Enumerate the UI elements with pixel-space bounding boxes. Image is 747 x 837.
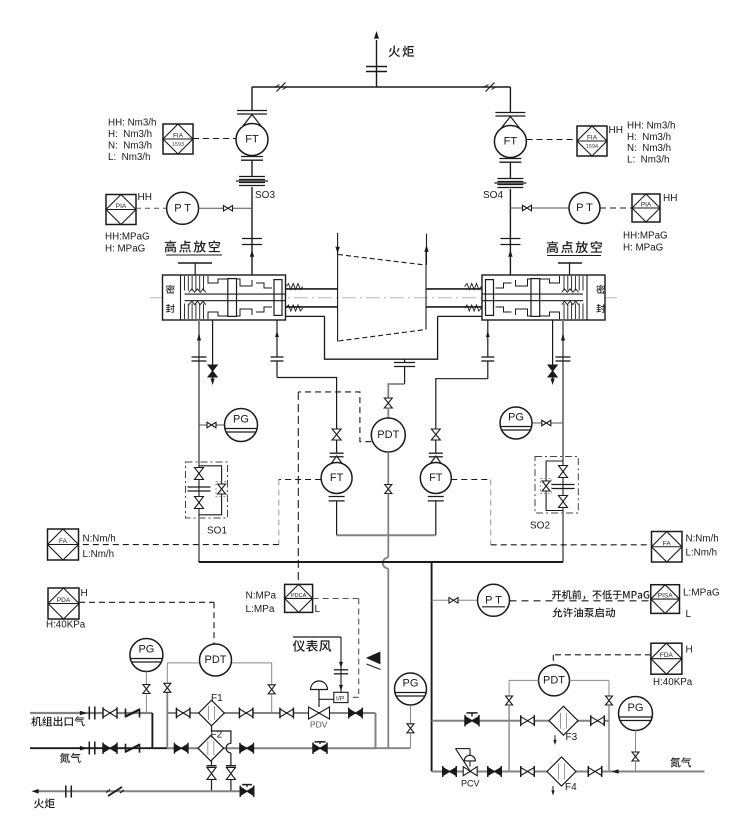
valve PCV east	[488, 768, 502, 776]
flange pair right riser	[500, 238, 520, 240]
compressor left wall	[337, 253, 339, 342]
SO1 dashed box	[186, 462, 228, 518]
flange left FT leg	[330, 452, 344, 454]
signal PDA to PDT	[79, 601, 214, 603]
signal PDT loop	[298, 392, 371, 442]
pressure gauge PG right	[500, 407, 532, 439]
signal FIA-FT dashed	[193, 138, 236, 140]
wire flare stub	[376, 40, 378, 87]
svg-text:L:Nm/h: L:Nm/h	[686, 548, 718, 559]
left seal housing label	[166, 285, 175, 294]
wire PG mid tap	[410, 705, 412, 724]
shaft line right	[426, 288, 482, 290]
flow cone left lower FT	[329, 456, 345, 467]
compressor right wall	[425, 251, 427, 330]
capped valve flare end	[240, 787, 254, 796]
instrument PDA left	[48, 588, 79, 619]
hop drain over row2	[226, 743, 231, 753]
wire center drop lower	[387, 569, 389, 749]
wire PCV row	[432, 771, 705, 773]
svg-text:N:Nm/h: N:Nm/h	[83, 534, 116, 545]
instrument FA right	[652, 532, 683, 563]
control valve PCV	[463, 767, 477, 776]
wire center PDT upper	[387, 408, 389, 419]
pressure gauge PG lower-left	[130, 639, 163, 672]
svg-text:PG: PG	[233, 414, 249, 426]
svg-text:FT: FT	[245, 134, 259, 146]
wire F1 drain jog	[212, 726, 231, 744]
pressure gauge PG left	[225, 409, 258, 442]
signal PT dashed	[510, 600, 651, 602]
air flange	[334, 669, 348, 671]
wire left leak leg	[276, 320, 278, 357]
exhaust outlet wire	[404, 359, 406, 362]
wire PG lower-left tap	[145, 672, 147, 686]
differential transmitter PDT center	[371, 418, 405, 452]
valve right vent stub	[552, 320, 554, 365]
svg-text:N: Nm3/h: N: Nm3/h	[108, 141, 152, 152]
wire right vent riser	[509, 87, 511, 112]
exhaust duct	[325, 316, 438, 359]
flange below right lower FT	[428, 496, 444, 498]
valve SO2 upper	[559, 466, 568, 478]
wire PDT tap east lower	[271, 694, 273, 713]
svg-text:F3: F3	[566, 732, 578, 743]
wire right leak leg	[487, 320, 489, 357]
shaft line left	[286, 288, 338, 290]
svg-text:N: Nm3/h: N: Nm3/h	[627, 143, 671, 154]
valve center lower	[385, 485, 392, 494]
valve F2 inlet	[174, 744, 188, 752]
valve PDV inlet	[280, 709, 294, 717]
vent underline left	[166, 254, 222, 256]
wire left seal supply upper	[198, 320, 200, 462]
wire flare row	[38, 790, 240, 792]
signal PDCA riser	[297, 392, 299, 585]
wire right seal supply upper	[562, 320, 564, 457]
label 火炬 bottom	[34, 798, 44, 808]
svg-text:P T: P T	[576, 202, 593, 214]
valve SO1 bypass	[218, 484, 226, 494]
svg-text:FDA: FDA	[660, 652, 674, 659]
SO1 orifice plates	[188, 486, 211, 488]
valve row2 inlet	[103, 744, 117, 753]
drain arrow F3	[554, 735, 556, 741]
valve PG mid	[407, 724, 414, 733]
vent 高点放空 right label	[547, 241, 558, 253]
valve F4 outlet	[588, 768, 602, 776]
flange right FT leg	[429, 452, 443, 454]
filter F4	[547, 757, 576, 786]
drain valve west	[211, 761, 213, 766]
wire row1 inlet	[30, 712, 152, 714]
instrument PIA left	[106, 195, 136, 225]
filter F1	[199, 700, 225, 726]
filter F3	[549, 706, 578, 735]
svg-text:PG: PG	[628, 702, 644, 714]
drain valve east	[226, 765, 236, 767]
label 氮气 row2	[60, 753, 70, 763]
arrow up into flare line right	[508, 250, 512, 257]
valve PG lower-right	[632, 752, 639, 761]
svg-text:HH: HH	[663, 193, 677, 204]
flow stub right	[426, 234, 428, 265]
shaft spring right-bottom	[465, 305, 482, 311]
wire riser west right	[508, 705, 510, 772]
svg-text:PIA: PIA	[641, 202, 652, 209]
flange row2 inlet	[88, 742, 90, 755]
valve F1 outlet	[239, 709, 253, 717]
svg-text:N:MPa: N:MPa	[246, 590, 277, 601]
valve PDT tap east right	[606, 696, 613, 705]
wire PDV outlet link	[376, 747, 411, 749]
valve PT tap left	[224, 206, 233, 212]
svg-text:H: Nm3/h: H: Nm3/h	[108, 129, 152, 140]
wire PG mid drop	[410, 733, 412, 748]
arrow up left leak	[275, 331, 279, 337]
orifice stack SO4	[497, 178, 523, 180]
svg-text:PG: PG	[508, 412, 524, 424]
instrument FA left	[48, 529, 79, 560]
valve F2 outlet	[240, 744, 254, 752]
svg-text:I/P: I/P	[336, 695, 345, 702]
capped valve row2	[313, 744, 327, 753]
wire PG lower-left drop	[145, 694, 147, 714]
signal FT-FIA dashed right	[527, 139, 578, 141]
svg-text:PDCA: PDCA	[291, 593, 307, 599]
PDV actuator dome	[311, 681, 328, 690]
svg-text:HH: Nm3/h: HH: Nm3/h	[108, 118, 156, 129]
wire FT collector	[337, 534, 436, 536]
svg-text:HH: Nm3/h: HH: Nm3/h	[627, 121, 675, 132]
check valve row1	[125, 709, 127, 718]
flange above right FT	[495, 112, 525, 114]
svg-text:L:Nm/h: L:Nm/h	[83, 549, 115, 560]
filter F2	[198, 735, 224, 761]
valve SO1 lower	[195, 497, 204, 509]
flange flare row	[65, 786, 67, 798]
wire PDT tap west upper	[166, 663, 168, 683]
exhaust jog wire	[388, 384, 404, 399]
signal PT-PIA dashed right	[600, 207, 632, 209]
wire PDT right tap east	[570, 679, 610, 681]
wire left vent riser	[251, 87, 253, 111]
svg-text:H:40KPa: H:40KPa	[46, 620, 86, 631]
valve right FT leg	[431, 429, 440, 440]
valve PDT tap east	[268, 685, 275, 694]
pressure transmitter PT right	[569, 193, 600, 224]
svg-text:PG: PG	[403, 678, 419, 690]
arrow N2 inlet	[612, 769, 619, 774]
svg-text:SO1: SO1	[207, 526, 227, 537]
svg-text:FT: FT	[429, 472, 443, 484]
instrument PIA right	[632, 194, 660, 222]
flange row1 inlet	[88, 707, 90, 720]
signal FDA to PDT	[553, 654, 651, 656]
svg-text:SO4: SO4	[483, 190, 503, 201]
instrument FIA right	[577, 126, 607, 156]
vent underline right	[547, 255, 601, 257]
valve right PG tap	[542, 420, 551, 426]
arrow up right supply	[561, 334, 565, 340]
wire right leak jog	[436, 379, 488, 429]
svg-text:PDT: PDT	[205, 654, 227, 666]
flow cone left FT	[241, 115, 263, 129]
svg-text:1594: 1594	[586, 144, 598, 150]
exhaust flange	[394, 362, 415, 364]
wire PT interlock tap	[432, 599, 450, 601]
differential transmitter PDT left	[200, 644, 232, 676]
svg-text:F1: F1	[211, 693, 223, 704]
orifice stack SO3	[239, 176, 265, 178]
svg-text:HH: HH	[609, 125, 623, 136]
pressure transmitter PT left	[167, 192, 199, 224]
wire row2 filter segment	[167, 747, 375, 749]
svg-text:L: Nm3/h: L: Nm3/h	[108, 152, 150, 163]
svg-text:FT: FT	[330, 472, 344, 484]
svg-text:HH: HH	[138, 192, 152, 203]
flange below left lower FT	[329, 496, 345, 498]
svg-text:FIA: FIA	[587, 135, 598, 142]
valve left FT leg	[332, 429, 341, 440]
svg-text:H: Nm3/h: H: Nm3/h	[627, 132, 671, 143]
arrow air 1	[339, 662, 343, 668]
wire row1 filter segment	[167, 712, 375, 714]
label 火炬 top	[389, 46, 401, 57]
wire center drop	[387, 494, 389, 558]
valve F3 inlet	[521, 717, 535, 725]
wire PT tap left	[199, 207, 224, 209]
flange left leak	[271, 356, 284, 358]
pressure gauge PG lower-right	[619, 697, 653, 731]
signal PIA-PT dashed	[136, 207, 167, 209]
svg-text:L:MPa: L:MPa	[246, 604, 275, 615]
compressor top dashed	[338, 255, 425, 266]
svg-text:FT: FT	[504, 136, 518, 148]
flange below left FT	[241, 156, 263, 158]
wire left seal supply lower	[198, 518, 200, 562]
label 氮气 right	[670, 757, 680, 767]
arrow row2 inlet	[80, 746, 87, 751]
flange right leak	[481, 356, 494, 358]
instrument FIA left	[163, 124, 193, 154]
wire SO2 main	[562, 457, 564, 514]
arrow air 2	[339, 685, 343, 691]
hop center over header	[383, 558, 389, 569]
flow transmitter FT right-bottom	[420, 463, 451, 494]
instrument PDCA	[285, 584, 313, 612]
SO1 bypass wire	[199, 466, 222, 515]
wire right FT outlet	[435, 501, 437, 535]
pressure gauge PG mid	[395, 673, 427, 705]
differential transmitter PDT right	[539, 665, 570, 696]
flange above left FT	[237, 110, 267, 112]
svg-text:H:40KPa: H:40KPa	[653, 677, 693, 688]
pressure transmitter PT interlock	[478, 584, 510, 616]
valve row1 inlet	[103, 709, 117, 718]
wire left FT outlet	[336, 501, 338, 535]
flange pair left riser	[242, 238, 262, 240]
SO2 orifice plates	[552, 484, 575, 486]
arrow up right leak	[486, 331, 490, 337]
valve SO2 lower	[559, 496, 568, 508]
valve PDT tap west	[164, 683, 171, 692]
svg-text:H: H	[81, 588, 88, 599]
svg-text:1593: 1593	[172, 142, 184, 148]
svg-text:PG: PG	[138, 644, 154, 656]
svg-text:H: MPaG: H: MPaG	[623, 243, 663, 254]
wire SO1 main	[198, 462, 200, 518]
svg-text:L: L	[315, 604, 321, 615]
valve PG lower-left	[143, 685, 150, 694]
label interlock line1	[552, 591, 561, 600]
IP converter box	[334, 692, 348, 702]
wire PDT tap east	[232, 662, 272, 664]
wire drain crossover	[230, 753, 232, 766]
signal PDCA to IP	[313, 598, 359, 600]
flange below right FT	[499, 158, 521, 160]
right seal housing label	[596, 285, 605, 294]
fail arrow triangle	[366, 652, 381, 665]
shaft spring left-bottom	[286, 305, 303, 311]
arrow row1 inlet	[80, 711, 87, 716]
arrow up into flare line left	[250, 250, 254, 257]
svg-text:P T: P T	[174, 202, 191, 214]
svg-text:L:MPaG: L:MPaG	[683, 588, 720, 599]
valve PCV west	[443, 768, 457, 776]
svg-text:FA: FA	[59, 538, 68, 545]
right seal housing	[482, 275, 605, 320]
valve left vent stub	[212, 320, 214, 365]
signal corner drop left	[278, 480, 280, 545]
compressor bottom dashed	[339, 330, 427, 342]
label interlock line2	[552, 607, 562, 617]
wire PG lower-right tap	[635, 731, 637, 753]
valve PT tap right	[523, 205, 532, 211]
instrument PISA	[651, 585, 680, 614]
valve F3 outlet	[591, 717, 605, 725]
wire flare header	[252, 86, 510, 88]
vent tee left	[178, 262, 212, 264]
valve left PG tap	[207, 422, 216, 428]
capped valve F3 row	[465, 716, 479, 725]
svg-text:HH:MPaG: HH:MPaG	[623, 231, 668, 242]
flow cone right FT	[499, 117, 521, 131]
wire air drop	[340, 637, 342, 692]
valve SO2 bypass	[542, 481, 550, 491]
vent 高点放空 left label	[165, 240, 176, 252]
wire PT tap right	[510, 207, 522, 209]
wire PDT right tap west	[509, 679, 538, 681]
wire left FT leg mid	[336, 440, 338, 453]
shaft spring right-top	[465, 284, 482, 290]
flange right supply	[556, 356, 571, 358]
svg-text:SO3: SO3	[255, 190, 275, 201]
SO2 bypass wire	[546, 461, 563, 511]
svg-text:L: L	[686, 609, 692, 620]
label 机组出口气	[31, 716, 41, 726]
label 仪表风	[293, 640, 305, 652]
wire filter feed riser	[166, 692, 168, 748]
flow transmitter FT left-top	[236, 124, 268, 156]
signal to FA left	[79, 544, 279, 546]
wire gas header corner left	[198, 561, 200, 562]
control valve PDV	[309, 707, 330, 719]
signal corner drop right	[490, 480, 492, 545]
wire main right riser	[431, 562, 433, 772]
valve F1 inlet	[176, 709, 190, 717]
signal to FA right	[491, 544, 652, 546]
svg-text:PDV: PDV	[310, 720, 328, 730]
arrow flare left	[32, 789, 39, 794]
arrow up left supply	[197, 334, 201, 340]
svg-text:FIA: FIA	[173, 133, 184, 140]
svg-text:PDA: PDA	[57, 597, 71, 604]
flange left supply	[192, 356, 207, 358]
wire PG lower-right drop	[635, 761, 637, 772]
wire right seal supply lower	[562, 513, 564, 562]
valve center PDT upper	[384, 398, 392, 408]
wire center PDT lower	[387, 452, 389, 486]
wire row1-row2 tie	[151, 713, 153, 748]
svg-text:F4: F4	[565, 782, 577, 793]
svg-text:PIA: PIA	[116, 203, 127, 210]
vent tee right	[558, 262, 582, 264]
svg-text:H: H	[686, 645, 693, 656]
svg-text:HH:MPaG: HH:MPaG	[105, 232, 150, 243]
instrument FDA right	[651, 643, 682, 674]
line break mark right	[486, 83, 495, 92]
wire gas header horizontal	[199, 561, 432, 563]
svg-text:L: Nm3/h: L: Nm3/h	[627, 154, 669, 165]
valve SO1 upper	[195, 468, 204, 480]
instrument air overline	[293, 636, 341, 638]
blind flare row	[108, 787, 122, 796]
flow transmitter FT right-top	[494, 126, 526, 158]
flare spectacle blind	[366, 66, 387, 68]
flare arrow up	[374, 31, 379, 39]
line break mark left	[277, 83, 286, 92]
flow transmitter FT left-bottom	[321, 463, 352, 494]
wire IP to PDV stem	[319, 698, 334, 700]
flow cone right lower FT	[428, 456, 444, 467]
drain arrow F4	[552, 786, 554, 792]
valve F4 inlet	[521, 768, 535, 776]
flow stub left	[337, 233, 339, 254]
svg-text:H: MPaG: H: MPaG	[105, 244, 145, 255]
wire F1 outlet drop	[375, 713, 377, 748]
wire left PG tap	[199, 424, 225, 426]
SO2 dashed box	[535, 457, 578, 514]
shaft centerline	[150, 297, 617, 299]
svg-text:PDT: PDT	[543, 674, 565, 686]
wire riser east right	[608, 705, 610, 772]
wire right FT leg mid	[435, 440, 437, 453]
left seal housing	[163, 275, 286, 320]
wire left leak jog	[277, 378, 337, 430]
wire F3 row	[432, 720, 609, 722]
gland line left	[286, 315, 325, 317]
signal FT-right to corner	[451, 479, 490, 481]
svg-text:SO2: SO2	[530, 521, 550, 532]
wire row2 inlet	[30, 747, 167, 749]
signal FT-left to corner	[279, 479, 321, 481]
valve PDV outlet	[349, 709, 363, 717]
valve PDT tap west right	[506, 696, 513, 705]
svg-text:N:Nm/h: N:Nm/h	[686, 534, 719, 545]
svg-text:PDT: PDT	[377, 429, 399, 441]
svg-text:FA: FA	[663, 540, 672, 547]
